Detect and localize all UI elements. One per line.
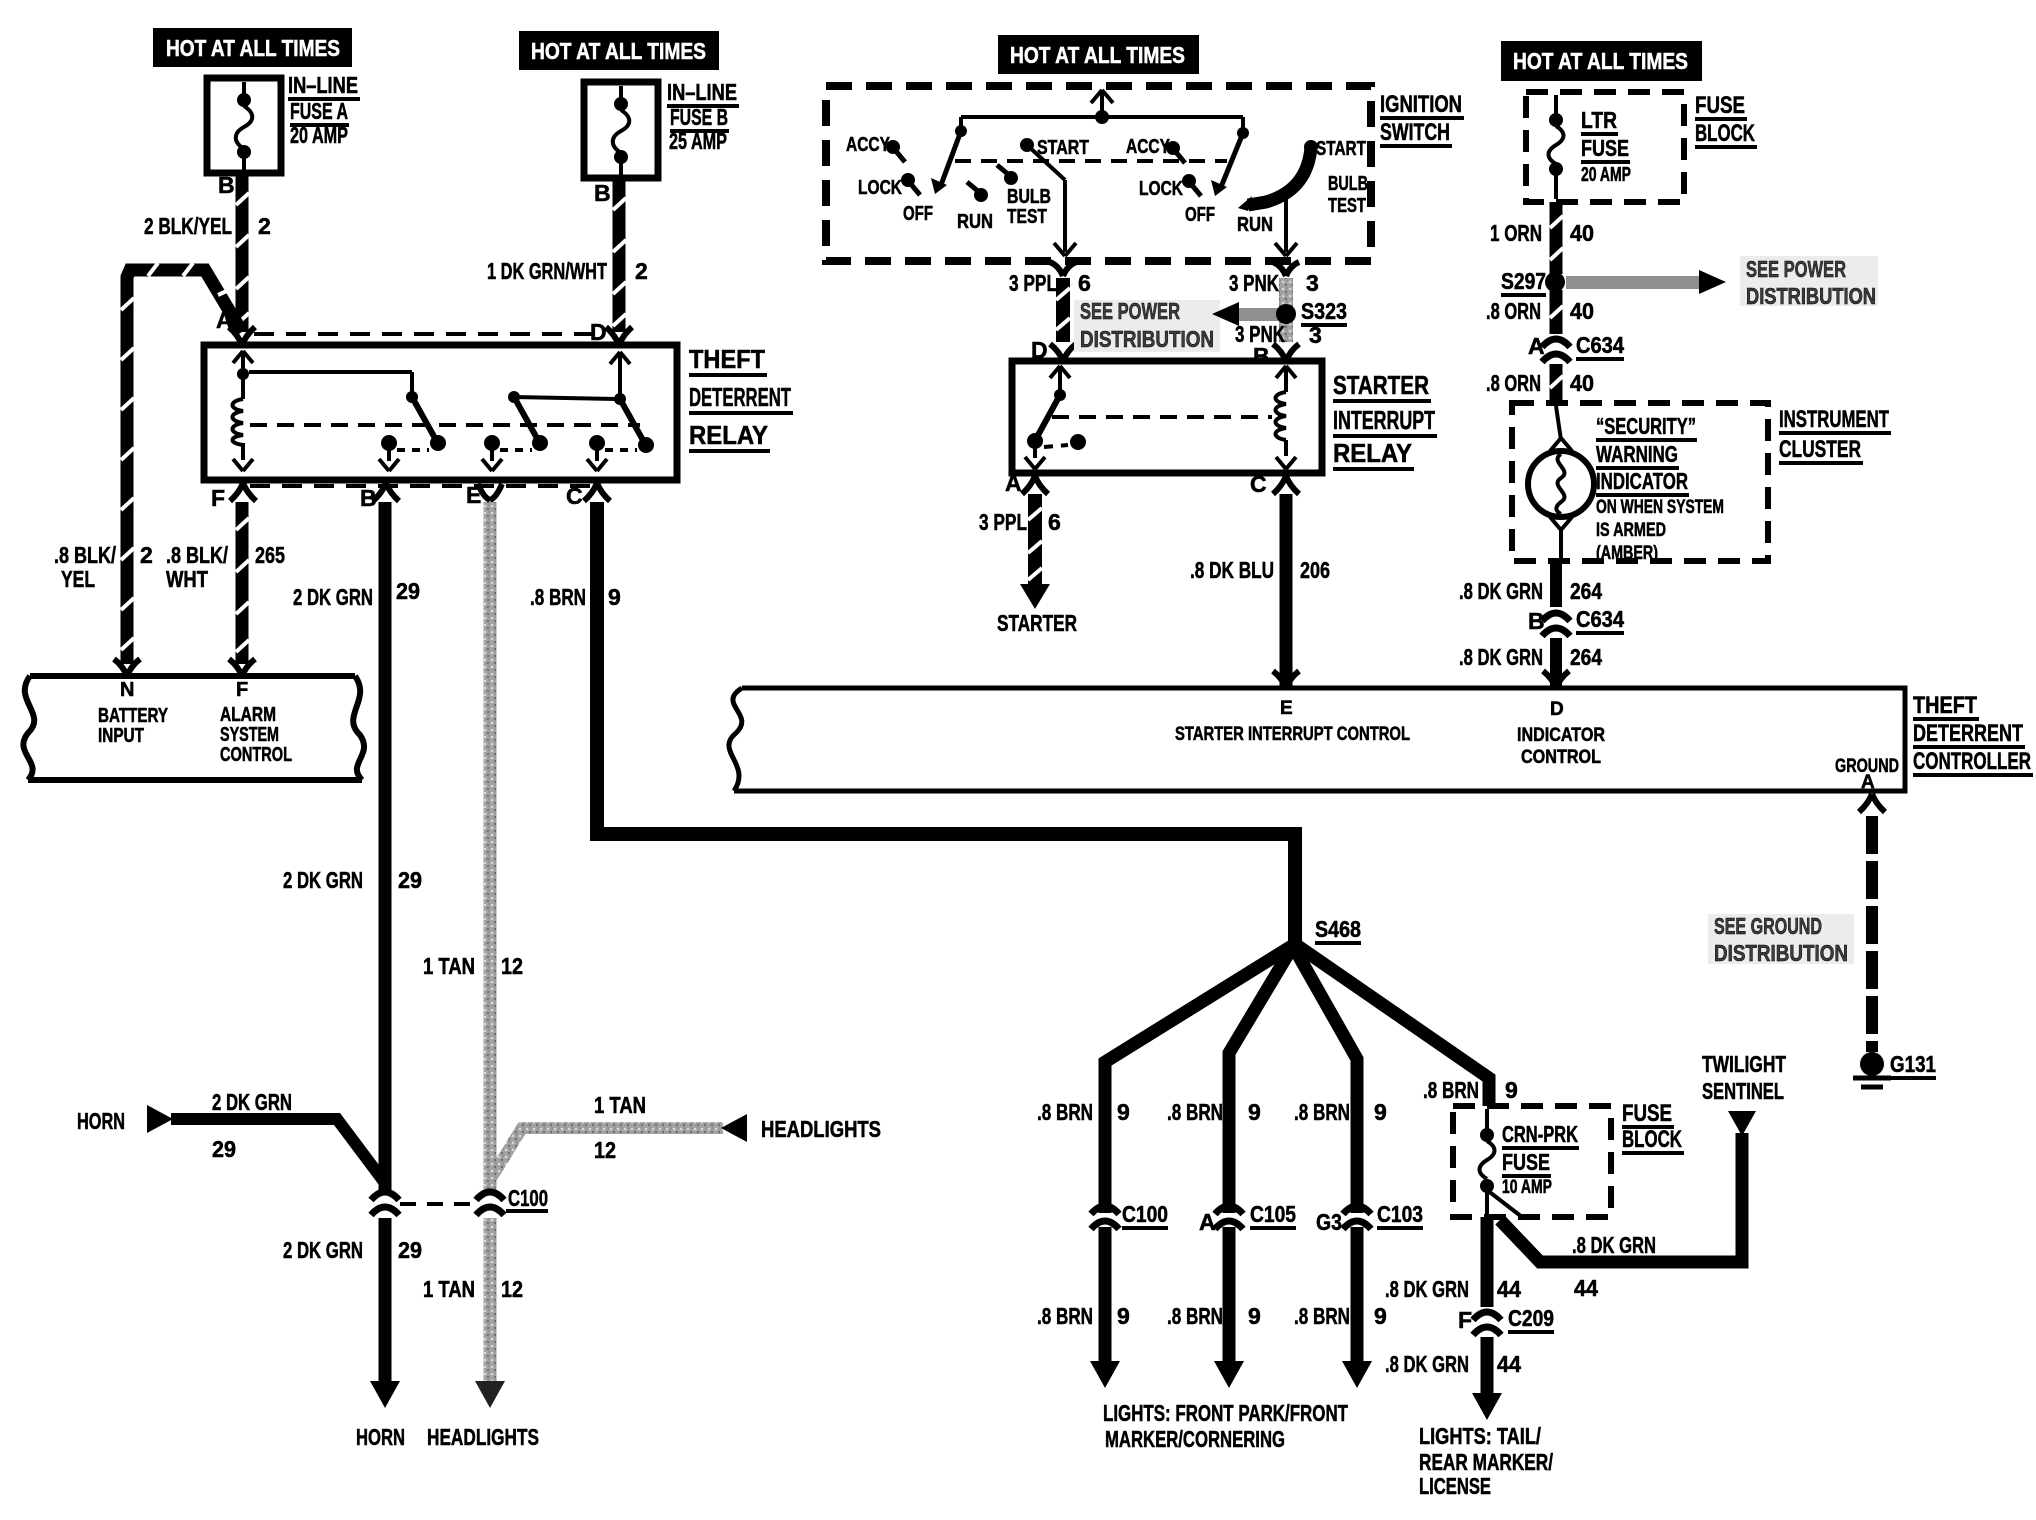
arrow to HEADLIGHTS (bottom) [475,1381,505,1408]
svg-text:2 DK GRN: 2 DK GRN [283,867,363,893]
svg-text:A: A [1199,1209,1216,1235]
svg-text:FUSE B: FUSE B [670,104,728,130]
svg-text:.8 BRN: .8 BRN [530,584,586,610]
wire label .8 DK GRN 264 [1459,578,1602,604]
splice S297 [1501,268,1565,295]
svg-text:LIGHTS: TAIL/: LIGHTS: TAIL/ [1419,1423,1541,1449]
wire labels .8 BRN 9 (row 2) [1037,1303,1387,1329]
wire label .8 DK GRN 264 (second) [1459,644,1602,670]
svg-text:.8 DK BLU: .8 DK BLU [1190,557,1274,583]
svg-text:.8 DK GRN: .8 DK GRN [1459,644,1543,670]
arrow to STARTER [1020,584,1050,609]
arrow to front lights (branch 3) [1342,1361,1372,1388]
svg-text:HEADLIGHTS: HEADLIGHTS [427,1424,539,1450]
ignition feed arrow and rail [961,90,1243,129]
svg-text:.8 ORN: .8 ORN [1486,298,1541,324]
relay switch 3 (pin C contact, pin D feed) [587,352,654,471]
starter relay dashed linkage [1052,415,1272,419]
svg-text:WARNING: WARNING [1596,441,1678,467]
svg-text:SWITCH: SWITCH [1380,119,1450,146]
wire label .8 DK GRN 44 (lower) [1385,1351,1521,1377]
text SECURITY WARNING INDICATOR ON WHEN SYSTEM IS ARMED (AMBER) [1596,413,1724,564]
svg-text:264: 264 [1570,578,1602,604]
svg-text:CRN-PRK: CRN-PRK [1502,1121,1578,1147]
svg-text:1 ORN: 1 ORN [1490,220,1542,246]
svg-text:STARTER INTERRUPT CONTROL: STARTER INTERRUPT CONTROL [1175,724,1410,745]
value label IN-LINE FUSE B 25 AMP [667,79,739,154]
pin D label and fork (starter relay) [1031,337,1076,363]
svg-text:ACCY: ACCY [1126,136,1171,158]
svg-text:REAR MARKER/: REAR MARKER/ [1419,1449,1553,1475]
wire 1 TAN 12 below C100 (gray) [484,1218,497,1384]
wire label .8 ORN 40 [1486,298,1594,324]
fuse LTR FUSE 20 AMP [1549,95,1564,199]
svg-text:B: B [218,172,235,198]
svg-text:E: E [466,482,481,508]
wire label 1 DK GRN/WHT 2 [487,258,648,284]
wire label .8 BLK/WHT 265 [166,542,285,592]
svg-text:C105: C105 [1250,1201,1296,1227]
svg-text:A: A [1861,772,1875,793]
controller pin E text STARTER INTERRUPT CONTROL [1175,698,1410,745]
pin D connector fork [606,327,632,345]
connector fork below ignition (PPL wire) [1050,262,1076,276]
wire 2 BLK/YEL 2 from fuse A to relay pin A (hatched) [236,173,249,332]
wire 1 ORN 40 fuse block to S297 (hatched) [1550,202,1563,274]
wire .8 DK GRN 44 twilight sentinel to fuse block [1500,1133,1742,1262]
connector C209 pin F [1458,1305,1554,1335]
svg-text:HOT AT ALL TIMES: HOT AT ALL TIMES [1010,42,1185,68]
svg-text:FUSE: FUSE [1502,1149,1550,1175]
svg-text:OFF: OFF [1185,204,1215,226]
svg-text:2 DK GRN: 2 DK GRN [293,584,373,610]
svg-text:RUN: RUN [957,211,993,233]
svg-text:DETERRENT: DETERRENT [689,382,791,412]
svg-text:G131: G131 [1890,1051,1936,1077]
svg-text:9: 9 [1117,1099,1130,1125]
svg-text:12: 12 [501,1276,523,1302]
svg-text:40: 40 [1570,298,1594,324]
svg-text:IGNITION: IGNITION [1380,91,1462,118]
arrow to front lights (branch 2) [1214,1361,1244,1388]
controller pin GROUND A text [1835,756,1899,793]
svg-text:264: 264 [1570,644,1602,670]
svg-text:9: 9 [1248,1303,1261,1329]
wire .8 DK BLU 206 to controller pin E [1280,494,1293,688]
dashed link pin A to pin D [254,332,606,336]
svg-text:3 PPL: 3 PPL [979,509,1027,535]
svg-text:CONTROL: CONTROL [1521,747,1601,768]
pin B fork and label [360,483,399,511]
wire .8 DK GRN 264 C634 to controller pin D [1550,638,1562,688]
stippled arrow to see power distribution (points right) [1566,270,1726,294]
starter relay coil [1276,366,1297,469]
stippled arrow to see power distribution (points left) [1212,302,1282,326]
wire from START contact to pin D [1027,145,1076,256]
svg-text:D: D [1550,699,1564,720]
svg-text:.8 BRN: .8 BRN [1294,1099,1350,1125]
svg-text:IN–LINE: IN–LINE [667,79,737,105]
svg-text:C103: C103 [1377,1201,1423,1227]
svg-text:6: 6 [1048,509,1061,535]
feed label HOT AT ALL TIMES (fuse block) [1501,41,1702,81]
svg-text:STARTER: STARTER [997,610,1077,636]
svg-text:LTR: LTR [1581,107,1617,133]
component label THEFT DETERRENT CONTROLLER [1913,692,2033,775]
wire 2 DK GRN 29 below connector to horn arrow [379,1218,392,1384]
svg-text:HEADLIGHTS: HEADLIGHTS [761,1116,881,1142]
wire 3 PPL 6 to starter (hatched) [1028,494,1042,585]
component label IGNITION SWITCH [1380,91,1464,146]
wire label 1 TAN 12 (headlights branch) [594,1092,646,1163]
connector fork below ignition (PNK wire) [1273,262,1299,276]
svg-text:CLUSTER: CLUSTER [1779,436,1861,463]
wire .8 BRN 9 relay pin C to S468 [597,502,1295,946]
text BATTERY INPUT [98,705,168,747]
wire label 3 PPL 6 (starter) [979,509,1061,535]
svg-text:.8 BLK/: .8 BLK/ [166,542,228,568]
svg-text:2: 2 [140,542,153,568]
connector C100 (branch 1) [1091,1201,1168,1229]
pin B label and fork (starter relay) [1253,343,1299,369]
svg-text:LICENSE: LICENSE [1419,1473,1491,1499]
wire .8 BRN 9 branch 2 to C105 [1229,946,1293,1363]
svg-text:N: N [120,679,134,701]
text LIGHTS: TAIL/ REAR MARKER/ LICENSE [1419,1423,1553,1499]
wire .8 BRN 9 branch 1 to C100 [1105,944,1295,1363]
connector C634 pin B [1528,606,1624,636]
stippled note SEE GROUND DISTRIBUTION [1708,913,1854,966]
svg-text:S297: S297 [1501,268,1546,294]
svg-text:1 DK GRN/WHT: 1 DK GRN/WHT [487,258,607,284]
splice S323 [1276,298,1347,348]
wire 2 DK GRN 29 relay pin B down to horn [379,502,392,1192]
svg-text:.8 DK GRN: .8 DK GRN [1572,1232,1656,1258]
svg-text:B: B [594,180,611,206]
svg-text:TEST: TEST [1007,206,1047,228]
svg-text:206: 206 [1300,557,1330,583]
svg-text:E: E [1280,698,1293,719]
svg-text:LIGHTS: FRONT PARK/FRONT: LIGHTS: FRONT PARK/FRONT [1103,1400,1348,1426]
wire label .8 BRN 9 (pin C) [530,584,621,610]
svg-text:C634: C634 [1576,606,1624,632]
svg-text:C634: C634 [1576,332,1624,358]
wire 3 PPL 6 ignition to starter relay pin D (hatched) [1056,278,1070,342]
svg-text:.8 BRN: .8 BRN [1037,1099,1093,1125]
wire from BULB TEST to pin B [1275,194,1297,256]
svg-text:10 AMP: 10 AMP [1502,1177,1552,1198]
svg-text:29: 29 [212,1136,236,1162]
relay coil (pin A to pin F) [233,351,254,471]
svg-text:FUSE: FUSE [1695,92,1745,119]
wire .8 DK GRN 44 fuse to C209 [1481,1217,1494,1307]
svg-text:HOT AT ALL TIMES: HOT AT ALL TIMES [531,38,706,64]
wire .8 DK GRN 44 C209 to tail lights [1481,1337,1494,1395]
svg-text:2 DK GRN: 2 DK GRN [212,1089,292,1115]
svg-text:.8 BRN: .8 BRN [1167,1303,1223,1329]
controller box THEFT DETERRENT CONTROLLER (torn left edge) [729,688,1905,791]
wire label .8 DK GRN 44 (twilight) [1572,1232,1656,1301]
svg-text:START: START [1037,137,1089,159]
ignition switch wafer 1 (left) [886,125,1034,202]
connector C634 pin A [1528,332,1624,362]
svg-text:WHT: WHT [166,566,208,592]
svg-text:ACCY: ACCY [846,134,891,156]
svg-text:C209: C209 [1508,1305,1554,1331]
box BATTERY INPUT / ALARM SYSTEM CONTROL (torn edges) [23,676,364,780]
svg-text:BLOCK: BLOCK [1622,1126,1682,1153]
svg-text:3: 3 [1306,270,1319,296]
component label STARTER INTERRUPT RELAY [1333,370,1437,469]
feed label HOT AT ALL TIMES (fuse B) [519,31,719,70]
svg-text:CONTROLLER: CONTROLLER [1913,748,2031,775]
svg-text:HOT AT ALL TIMES: HOT AT ALL TIMES [1513,48,1688,74]
svg-text:2 BLK/YEL: 2 BLK/YEL [144,213,232,239]
component label FUSE BLOCK (top) [1695,92,1757,147]
controller pin D text INDICATOR CONTROL [1517,699,1605,768]
svg-text:INDICATOR: INDICATOR [1517,725,1605,746]
svg-text:TEST: TEST [1328,195,1366,217]
svg-text:1 TAN: 1 TAN [423,953,475,979]
svg-text:2 DK GRN: 2 DK GRN [283,1237,363,1263]
switch box IGNITION SWITCH (dashed) [826,86,1371,261]
wire label 3 PNK 3 (upper) [1229,270,1319,296]
svg-text:40: 40 [1570,370,1594,396]
svg-text:40: 40 [1570,220,1594,246]
svg-text:.8 ORN: .8 ORN [1486,370,1541,396]
svg-text:INTERRUPT: INTERRUPT [1333,405,1435,435]
wire label 2 DK GRN 29 (middle) [283,867,422,893]
svg-text:RELAY: RELAY [1333,438,1412,468]
pin C fork and label [566,483,610,509]
wire 2 DK GRN 29 horn feed [171,1119,385,1183]
svg-text:DISTRIBUTION: DISTRIBUTION [1714,940,1848,966]
svg-text:6: 6 [1078,270,1091,296]
svg-text:HORN: HORN [77,1108,125,1134]
svg-text:BULB: BULB [1007,186,1051,208]
svg-text:F: F [236,679,248,701]
svg-text:.8 BLK/: .8 BLK/ [54,542,116,568]
wire label 2 DK GRN 29 (upper) [293,578,420,610]
svg-text:F: F [211,485,225,511]
svg-text:IN–LINE: IN–LINE [288,72,358,98]
svg-text:HOT AT ALL TIMES: HOT AT ALL TIMES [166,35,340,61]
svg-text:BLOCK: BLOCK [1695,120,1755,147]
svg-text:THEFT: THEFT [1913,692,1977,719]
svg-text:9: 9 [1248,1099,1261,1125]
ground pin fork below controller [1859,794,1885,812]
svg-text:.8 BRN: .8 BRN [1037,1303,1093,1329]
svg-text:STARTER: STARTER [1333,370,1429,400]
pin F fork and label [211,483,256,511]
dashed link below relay pins F-B-E-C [250,484,590,488]
svg-text:S468: S468 [1315,916,1361,942]
wire label 2 DK GRN 29 (horn feed) [212,1089,292,1162]
terminal labels N / F [120,679,248,701]
svg-text:FUSE: FUSE [1581,135,1629,161]
svg-text:DISTRIBUTION: DISTRIBUTION [1080,326,1214,352]
svg-text:3 PNK: 3 PNK [1229,270,1279,296]
connector C100 on tan wire [476,1185,548,1215]
svg-text:.8 BRN: .8 BRN [1167,1099,1223,1125]
svg-text:F: F [1458,1307,1472,1333]
svg-text:12: 12 [594,1137,616,1163]
svg-text:C: C [1250,471,1267,497]
svg-text:TWILIGHT: TWILIGHT [1702,1051,1786,1077]
svg-text:SEE GROUND: SEE GROUND [1714,913,1822,939]
svg-text:RELAY: RELAY [689,420,768,450]
svg-text:3: 3 [1309,322,1322,348]
connector fork at alarm F [229,659,255,676]
fuse block box (dashed) with CRN-PRK FUSE [1453,1106,1611,1217]
svg-text:265: 265 [255,542,285,568]
svg-text:A: A [1005,470,1022,496]
feed label HOT AT ALL TIMES (fuse A) [153,28,352,67]
svg-text:.8 DK GRN: .8 DK GRN [1459,578,1543,604]
svg-text:20 AMP: 20 AMP [1581,164,1631,186]
svg-text:2: 2 [258,213,271,239]
svg-text:9: 9 [1374,1303,1387,1329]
arrow from TWILIGHT SENTINEL (points down) [1728,1111,1756,1136]
splice S468 [1315,916,1361,943]
starter relay switch [1025,366,1086,469]
svg-text:1 TAN: 1 TAN [423,1276,475,1302]
svg-text:44: 44 [1574,1275,1598,1301]
svg-text:2: 2 [635,258,648,284]
value label IN-LINE FUSE A 20 AMP [288,72,360,148]
wire label .8 DK BLU 206 [1190,557,1330,583]
svg-text:9: 9 [1117,1303,1130,1329]
wire 1 TAN 12 relay pin E down (gray) [484,502,497,1192]
wire .8 ORN 40 C634 to instrument cluster (hatched) [1550,364,1563,403]
position labels wafer 2 [1126,136,1368,236]
svg-text:(AMBER): (AMBER) [1596,543,1658,564]
wire label .8 BLK/YEL 2 [54,542,153,592]
text LIGHTS: FRONT PARK/FRONT MARKER/CORNERING [1103,1400,1348,1452]
svg-text:THEFT: THEFT [689,344,765,374]
wire .8 BRN 9 branch 3 to C103 [1293,946,1357,1363]
svg-text:START: START [1316,138,1366,160]
wire .8 BLK/WHT 265 relay pin F to alarm F (hatched) [236,502,249,664]
svg-text:SEE POWER: SEE POWER [1746,256,1846,282]
pin A label and fork (relay top) [216,307,255,345]
svg-text:44: 44 [1497,1351,1521,1377]
connector C103 pin G3 (branch 3) [1316,1201,1423,1235]
svg-text:SYSTEM: SYSTEM [220,724,279,746]
connector fork at battery N [114,659,140,676]
svg-text:MARKER/CORNERING: MARKER/CORNERING [1105,1426,1285,1452]
component label INSTRUMENT CLUSTER [1779,406,1891,463]
pin A label and fork (starter relay bottom) [1005,470,1048,496]
svg-text:YEL: YEL [61,566,95,592]
wire label .8 DK GRN 44 [1385,1276,1521,1302]
arrow to tail lights [1472,1393,1502,1420]
svg-text:ON WHEN SYSTEM: ON WHEN SYSTEM [1596,497,1724,518]
indicator lamp SECURITY WARNING INDICATOR [1528,406,1594,558]
svg-text:BULB: BULB [1328,173,1368,195]
svg-text:OFF: OFF [903,203,933,225]
wire label 2 DK GRN 29 (lower) [283,1237,422,1263]
svg-text:B: B [1253,343,1270,369]
off-page arrow HEADLIGHTS (right) [721,1114,881,1142]
wire label 2 BLK/YEL 2 [144,213,271,239]
svg-text:3 PPL: 3 PPL [1009,270,1057,296]
fuse CRN-PRK FUSE 10 AMP [1480,1109,1523,1217]
svg-text:29: 29 [398,1237,422,1263]
svg-text:S323: S323 [1301,298,1347,324]
stippled note SEE POWER DISTRIBUTION (right) [1740,256,1878,309]
fuse IN-LINE FUSE B 25 AMP [584,82,658,178]
svg-text:.8 DK GRN: .8 DK GRN [1385,1351,1469,1377]
pin C label and fork (starter relay bottom) [1250,471,1299,497]
wire branch to battery input N (hatched) [121,263,242,664]
wire .8 ORN 40 S297 to C634 (hatched) [1550,290,1563,334]
relay box STARTER INTERRUPT RELAY [1012,361,1322,473]
svg-text:SEE POWER: SEE POWER [1080,298,1180,324]
wire 3 PNK 3 ignition to starter relay pin B (gray) [1279,278,1293,342]
svg-text:DISTRIBUTION: DISTRIBUTION [1746,283,1876,309]
text TWILIGHT SENTINEL [1702,1051,1786,1104]
fuse block box (dashed) with LTR FUSE [1526,92,1684,202]
ground G131 [1853,1051,1936,1087]
feed label HOT AT ALL TIMES (ignition switch) [998,35,1199,74]
svg-text:LOCK: LOCK [1139,178,1183,200]
pin D fork (controller top) [1543,671,1569,688]
ignition switch wafer 2 (right) [1166,127,1318,211]
svg-text:29: 29 [398,867,422,893]
wire label 3 PPL 6 [1009,270,1091,296]
svg-text:20 AMP: 20 AMP [290,122,348,148]
wire 1 TAN 12 headlights branch (gray) [490,1128,723,1180]
svg-text:.8 DK GRN: .8 DK GRN [1385,1276,1469,1302]
svg-text:1 TAN: 1 TAN [594,1092,646,1118]
svg-text:C100: C100 [1122,1201,1168,1227]
wire .8 DK GRN 264 cluster to C634 [1550,561,1562,607]
svg-text:HORN: HORN [356,1424,405,1450]
relay armature dashed linkage [250,423,640,427]
svg-text:25 AMP: 25 AMP [669,128,727,154]
dashed mechanical linkage (ignition) [955,159,1227,163]
svg-text:INPUT: INPUT [98,725,144,747]
svg-text:C: C [566,483,583,509]
component label THEFT DETERRENT RELAY [689,344,793,451]
svg-text:C100: C100 [508,1185,548,1211]
relay box THEFT DETERRENT RELAY [204,345,677,480]
svg-text:.8 BRN: .8 BRN [1294,1303,1350,1329]
svg-text:9: 9 [608,584,621,610]
connector C105 pin A (branch 2) [1199,1201,1296,1235]
dashed link to connector C100 [400,1202,472,1206]
value label LTR FUSE 20 AMP [1581,107,1631,186]
svg-text:RUN: RUN [1237,214,1273,236]
svg-text:44: 44 [1497,1276,1521,1302]
svg-text:FUSE A: FUSE A [290,98,348,124]
wire .8 BRN 9 branch 4 to fuse block [1295,944,1489,1106]
wire 1 DK GRN/WHT 2 from fuse B to relay pin D (hatched) [613,178,626,332]
inline connector on horn wire (C100 row) [371,1192,399,1215]
svg-text:INDICATOR: INDICATOR [1596,468,1688,494]
cluster box INSTRUMENT CLUSTER (dashed) [1512,403,1768,561]
svg-text:“SECURITY”: “SECURITY” [1596,413,1696,439]
wire labels .8 BRN 9 (row 1) [1037,1077,1518,1125]
svg-text:CONTROL: CONTROL [220,744,292,766]
pin E fork and label [466,482,502,508]
svg-text:SENTINEL: SENTINEL [1702,1078,1784,1104]
svg-text:B: B [360,485,377,511]
stippled note SEE POWER DISTRIBUTION (center) [1074,298,1220,352]
svg-text:BATTERY: BATTERY [98,705,168,727]
pin E fork (controller top) [1273,671,1299,688]
